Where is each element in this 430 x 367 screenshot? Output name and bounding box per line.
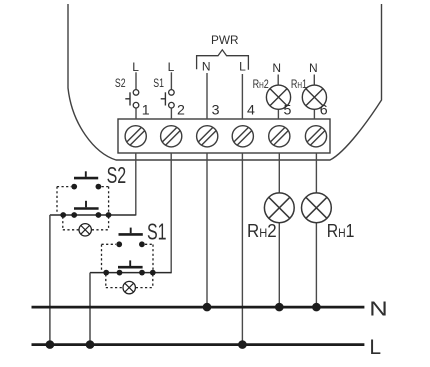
svg-text:N: N	[309, 61, 318, 75]
svg-text:2: 2	[177, 103, 185, 119]
svg-text:N: N	[369, 297, 387, 320]
svg-text:1: 1	[142, 103, 150, 119]
svg-text:L: L	[239, 59, 246, 73]
svg-text:S2: S2	[107, 163, 127, 189]
svg-text:N: N	[202, 59, 211, 73]
svg-text:6: 6	[320, 103, 328, 119]
svg-text:S1: S1	[147, 220, 167, 246]
svg-text:RH2: RH2	[247, 220, 277, 241]
svg-text:S1: S1	[153, 78, 164, 90]
svg-text:L: L	[132, 60, 139, 74]
svg-text:5: 5	[284, 103, 292, 119]
svg-text:4: 4	[247, 103, 255, 119]
svg-text:S2: S2	[115, 78, 126, 90]
svg-text:N: N	[272, 61, 281, 75]
svg-text:RH1: RH1	[327, 220, 355, 242]
svg-text:RH1: RH1	[291, 79, 307, 91]
svg-text:L: L	[369, 336, 381, 359]
svg-text:RH2: RH2	[253, 79, 269, 91]
svg-text:L: L	[168, 60, 175, 74]
svg-text:3: 3	[212, 103, 220, 119]
svg-text:PWR: PWR	[211, 33, 239, 47]
